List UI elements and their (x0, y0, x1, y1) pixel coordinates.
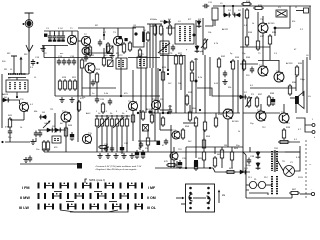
switch contact c13r2 (135, 204, 137, 210)
switch contact c13r1 (135, 193, 137, 199)
node n117 (116, 115, 118, 117)
trimmer arrow P1 (201, 39, 208, 48)
contact L4 (189, 202, 192, 205)
wire y120 left (10, 119, 24, 121)
node N13 (1, 141, 3, 143)
switch contact c2r1 (52, 193, 54, 199)
switch contact c1r1 (44, 193, 46, 199)
svg-text:33k: 33k (228, 87, 232, 89)
connector J1 (304, 8, 309, 13)
wire swlink 3-0 (62, 185, 68, 187)
switch contact c4r0 (67, 183, 69, 189)
svg-text:R16: R16 (248, 32, 253, 34)
tap 11-1 (123, 193, 125, 195)
switch contact c12r1 (127, 193, 129, 199)
wire x284 t13 (283, 104, 285, 113)
wire x196 vert (195, 20, 197, 45)
svg-text:• Regolare il filtro 455 kHz p: • Regolare il filtro 455 kHz per il max … (95, 168, 137, 171)
diode bridge X1 (276, 10, 287, 17)
resistor R24 (95, 72, 98, 84)
wire y113 rail (150, 112, 240, 114)
wire swlink 8-1 (99, 195, 105, 197)
wire y164 seg (20, 163, 80, 165)
resistor R49 (110, 117, 113, 128)
wire x246 ps2 (245, 190, 247, 198)
wire x133 mid (132, 111, 134, 141)
trimmer box L5 (212, 8, 218, 20)
wire x296 low (295, 104, 297, 113)
switch contact c14r1 (141, 193, 143, 199)
wire x55 vert (54, 57, 56, 96)
svg-text:W1: W1 (4, 69, 8, 71)
capacitor C2 plate (48, 40, 52, 42)
wire x232 low2 (231, 160, 233, 168)
IF can IFT0 (133, 27, 145, 47)
node n97 (96, 115, 98, 117)
wire T2 base rail (78, 40, 81, 42)
capacitor C36 electrolytic (194, 160, 198, 167)
svg-text:• Tensione 4.5V (7.5V) totale: • Tensione 4.5V (7.5V) totale oscillator… (95, 165, 142, 168)
svg-text:R33: R33 (235, 57, 240, 59)
resistor R72 (141, 110, 144, 121)
svg-text:IFT3: IFT3 (139, 54, 144, 56)
wire ladder x127 (126, 128, 128, 152)
wire x44 low (43, 148, 45, 152)
ground G4 (69, 97, 74, 102)
wire x310 vert (309, 6, 311, 60)
svg-text:L1: L1 (34, 77, 37, 79)
resistor R31 (185, 94, 188, 106)
wire y130 mid (160, 129, 172, 131)
wire ps loop (246, 155, 249, 190)
wire y152 right (240, 151, 268, 153)
svg-text:J1: J1 (295, 7, 298, 9)
switch contact c0r2 (38, 204, 40, 210)
svg-text:BC148: BC148 (232, 121, 239, 123)
trimmer arrow P2 (158, 43, 170, 53)
svg-text:D1: D1 (168, 19, 172, 21)
resistor R62 (220, 148, 223, 160)
svg-text:D7: D7 (244, 92, 248, 94)
wire sw2 left lead (181, 203, 186, 205)
switch contact c14r0 (141, 183, 143, 189)
resistor R76 (102, 56, 105, 67)
wire x171 seg (170, 125, 172, 150)
ground g100 (97, 153, 102, 158)
node D2 (232, 5, 234, 7)
antenna A3 stub (11, 56, 17, 67)
node n107 (106, 115, 108, 117)
transistor T17 (172, 131, 180, 139)
wire x243 vert (242, 8, 244, 50)
node n112 (111, 115, 113, 117)
svg-text:TR1: TR1 (274, 148, 279, 150)
wire plug lead (300, 193, 311, 195)
potentiometer P3 body (247, 96, 250, 108)
wire x203 vert (202, 18, 204, 55)
wire x243 low (242, 108, 244, 172)
svg-text:47: 47 (162, 145, 165, 147)
resistor R51 (120, 117, 123, 128)
wire swlink 7-2 (92, 206, 98, 208)
capacitor C27 (38, 131, 42, 138)
capacitor C26 (34, 131, 38, 138)
wire spk leads (290, 97, 295, 99)
wire x2 up (1, 74, 3, 100)
switch contact c0r1 (38, 193, 40, 199)
resistor R41 (8, 117, 11, 129)
tap 8-1 (101, 193, 103, 195)
node N15 (185, 167, 187, 169)
svg-text:k: k (314, 137, 316, 139)
capacitor C17 (72, 59, 76, 66)
capacitor C25 (8, 129, 12, 136)
capacitor C19 (91, 80, 95, 87)
wire x205 mid (204, 55, 206, 113)
svg-text:R37: R37 (258, 94, 263, 96)
svg-text:7.5: 7.5 (5, 125, 9, 129)
antenna A1 (25, 13, 34, 50)
wire y147 seg (186, 146, 243, 148)
svg-text:22k: 22k (160, 99, 164, 101)
switch contact c4r1 (67, 193, 69, 199)
wire x205 t (204, 113, 206, 122)
diode D9 (46, 128, 54, 133)
wire x228 t16 (227, 119, 229, 147)
switch arc left (189, 194, 192, 201)
svg-text:455kHz: 455kHz (150, 19, 157, 21)
wire x190 t (189, 105, 191, 112)
IF transformer IFT3 (137, 57, 147, 68)
arrow N4 (20, 57, 23, 69)
wire x258 drop (257, 12, 259, 39)
wire x290 link (289, 20, 291, 28)
svg-text:D2: D2 (238, 10, 242, 12)
capacitor C5 plate (61, 40, 65, 42)
resistor R48 (105, 117, 108, 128)
wire x263 drop (262, 33, 264, 66)
wire swlink 9-0 (107, 185, 113, 187)
oscillator coil L4 (160, 41, 169, 54)
node N7 (120, 95, 122, 97)
resistor R61 (213, 156, 216, 168)
node N5 (36, 62, 38, 64)
wire y142 seg (278, 141, 300, 143)
wire y53 seg (86, 52, 112, 54)
svg-text:C13: C13 (35, 57, 40, 59)
capacitor C43 body (125, 38, 128, 41)
svg-text:R56: R56 (218, 114, 223, 116)
capacitor C29 (28, 156, 32, 163)
wire swlink 1-0 (46, 185, 52, 187)
wire x155 mid (154, 110, 156, 141)
wire x174 t18 (173, 147, 175, 152)
svg-text:~: ~ (309, 162, 312, 167)
wire box down (16, 92, 18, 97)
capacitor C12 (171, 45, 175, 52)
svg-text:C20: C20 (100, 99, 105, 101)
resistor R53 (98, 145, 109, 148)
svg-text:W2: W2 (7, 53, 11, 55)
svg-text:R38: R38 (270, 93, 275, 95)
svg-text:LS: LS (306, 55, 309, 57)
ground g108 (105, 153, 110, 158)
svg-text:1:9: 1:9 (274, 53, 278, 55)
wire x90 drop (89, 73, 91, 96)
svg-text:300: 300 (2, 61, 6, 63)
resistor R4 (106, 42, 109, 54)
svg-text:5.6k: 5.6k (104, 93, 109, 95)
wire cap row bottom (42, 45, 68, 47)
wire N1 drop (103, 28, 105, 40)
node ant tap (23, 23, 25, 25)
resistor R55 (194, 116, 197, 128)
svg-text:L4: L4 (178, 21, 181, 23)
svg-text:4.7: 4.7 (103, 32, 107, 34)
node N10 (167, 73, 169, 75)
wire lamp mid (257, 184, 259, 186)
svg-text:T1: T1 (70, 28, 73, 30)
node N6 (16, 96, 18, 98)
wire y60 right (258, 60, 279, 62)
resistor R71 (131, 113, 134, 124)
svg-text:8.2k: 8.2k (198, 77, 203, 79)
svg-text:AC128: AC128 (286, 62, 293, 65)
svg-text:II MW: II MW (20, 196, 30, 200)
switch contact c3r2 (60, 204, 62, 210)
svg-text:L3: L3 (54, 132, 57, 134)
svg-text:100µ: 100µ (300, 79, 305, 81)
capacitor C3 plate (53, 40, 57, 42)
diode D10 (54, 128, 62, 133)
svg-text:T11: T11 (50, 109, 54, 111)
capacitor c141 (139, 142, 143, 148)
svg-text:D11: D11 (244, 168, 249, 170)
node n127 (126, 115, 128, 117)
wire x176 d (175, 66, 177, 113)
transistor T15 (82, 134, 91, 143)
svg-text:AF117: AF117 (146, 108, 153, 111)
svg-text:0.05: 0.05 (214, 83, 219, 85)
transistor T14 (61, 112, 71, 122)
wire vert x163 (162, 68, 164, 113)
wire x10 low (9, 135, 11, 142)
switch contact c7r1 (90, 193, 92, 199)
svg-text:R32: R32 (221, 56, 226, 58)
switch contact c13r0 (135, 183, 137, 189)
wire L1 core (8, 77, 26, 79)
tap 13-2 (138, 204, 140, 206)
wire swlink 4-2 (69, 206, 75, 208)
wire ladder x97 (96, 128, 98, 152)
tap 6-0 (86, 183, 88, 185)
svg-text:R67: R67 (292, 189, 297, 191)
tap 2-1 (56, 193, 58, 195)
resistor R19 (58, 79, 61, 91)
resistor R54 (188, 110, 191, 122)
wire x307 vert (306, 57, 308, 113)
svg-text:1k: 1k (98, 113, 101, 115)
ground g116 (113, 153, 118, 158)
svg-text:478: 478 (164, 161, 168, 163)
resistor R70 (146, 136, 149, 147)
wire y74 left (8, 73, 29, 75)
capacitor C4 plate (57, 40, 61, 42)
wire sw row link4 (109, 201, 117, 203)
svg-text:100µ: 100µ (246, 165, 251, 167)
capacitor C13 (31, 59, 35, 66)
svg-text:1k: 1k (252, 23, 255, 25)
resistor R5 (122, 42, 125, 54)
switch contact c1r2 (44, 204, 46, 210)
wire x82 seg (81, 70, 83, 96)
node D1 (223, 5, 225, 7)
contact L2 (189, 192, 192, 195)
ground G2 (109, 53, 114, 58)
resistor R11 (203, 38, 206, 50)
jack J3 (312, 131, 315, 134)
wire swlink 2-1 (54, 195, 60, 197)
capacitor C40 body (157, 141, 161, 145)
resistor R16 (245, 35, 248, 47)
switch contact c6r2 (82, 204, 84, 210)
tap 1-0 (48, 183, 50, 185)
svg-text:J: J (312, 119, 313, 121)
ground G5 (222, 79, 227, 84)
resistor R57 (203, 120, 206, 132)
wire y113 right (243, 112, 280, 114)
svg-text:10n: 10n (36, 149, 40, 151)
capacitor C33 electrolytic (135, 150, 139, 159)
capacitor C5 (61, 33, 65, 41)
wire top rail mid (78, 27, 136, 29)
svg-text:R66: R66 (229, 168, 234, 170)
svg-text:T12: T12 (262, 127, 266, 129)
resistor R13 (159, 24, 162, 36)
svg-text:P3: P3 (251, 94, 254, 96)
wire ps bottom long (246, 197, 292, 199)
wire x296 vert (295, 76, 297, 91)
resistor R64 (166, 163, 177, 166)
resistor R22 (73, 79, 76, 91)
wire y55 seg (160, 55, 185, 57)
wire x238 mid (237, 60, 239, 113)
wire y88 left (82, 87, 116, 89)
svg-text:OA85: OA85 (44, 122, 50, 125)
contact R5 (207, 207, 210, 210)
wire x204 low2 (203, 160, 205, 168)
wire y100 left (2, 99, 4, 101)
switch contact c12r0 (127, 183, 129, 189)
ground G6 (30, 139, 35, 144)
switch contact c14r2 (141, 204, 143, 210)
svg-text:5k: 5k (110, 113, 113, 115)
capacitor C14 (57, 59, 61, 66)
capacitor C38 (247, 158, 251, 165)
svg-text:2a: 2a (222, 193, 225, 197)
wire y123 seg (183, 122, 196, 124)
svg-text:68k: 68k (34, 111, 38, 113)
svg-text:D3: D3 (198, 19, 202, 21)
wire ps bottom (249, 193, 268, 195)
wire x29 drop (28, 60, 30, 74)
wire x181 d (180, 66, 182, 90)
wire x12 drop (13, 67, 15, 74)
svg-text:R27: R27 (178, 53, 183, 55)
wire x247 drop (246, 20, 248, 35)
switch contact c1r0 (44, 183, 46, 189)
wire sw2 link (193, 197, 206, 199)
svg-text:L1: L1 (10, 69, 13, 71)
tap 10-2 (116, 204, 118, 206)
node N1 (103, 34, 105, 36)
svg-text:R61: R61 (217, 154, 222, 156)
switch contact c7r2 (90, 204, 92, 210)
ground G3 (59, 97, 64, 102)
wire x196 c (195, 90, 197, 113)
svg-text:3 C4: 3 C4 (58, 28, 63, 30)
transformer TR2 prim (271, 176, 273, 195)
svg-text:IFT: IFT (188, 19, 192, 21)
wire x177 low (176, 161, 178, 168)
resistor R56 (214, 116, 217, 128)
wire x163 drop (162, 28, 164, 68)
capacitor C1 body (44, 34, 47, 37)
svg-text:C1: C1 (46, 28, 50, 30)
contact L1 (189, 187, 192, 190)
capacitor C42 body (119, 36, 122, 39)
svg-text:I MF: I MF (148, 186, 156, 190)
svg-text:V1: V1 (290, 162, 293, 164)
resistor R52 (125, 117, 128, 128)
resistor R32 (217, 57, 220, 69)
svg-text:AF121: AF121 (222, 28, 229, 31)
wire j1 lead (296, 10, 304, 12)
resistor R38 (267, 95, 270, 107)
wire y152 left (44, 151, 82, 153)
diode D11 (239, 170, 247, 175)
wire x121 b (120, 58, 122, 69)
wire x156 col (155, 68, 157, 100)
svg-text:5p: 5p (230, 53, 233, 55)
resistor R43 (64, 126, 67, 138)
wire y142 left (5, 141, 30, 143)
svg-text:PL: PL (254, 179, 257, 181)
wire y130 seg (38, 129, 66, 131)
switch contact c10r1 (112, 193, 114, 199)
svg-text:0.5: 0.5 (250, 85, 254, 87)
wire ps top (285, 146, 300, 152)
wire rect out (295, 152, 301, 171)
svg-text:T2: T2 (84, 34, 87, 36)
svg-text:2.2: 2.2 (300, 29, 304, 31)
transistor T3 (113, 36, 122, 45)
svg-text:R17: R17 (260, 36, 265, 38)
svg-text:R58: R58 (185, 126, 190, 128)
wire lamp right (266, 184, 272, 186)
diode D3 (197, 20, 202, 28)
diode D2 varicap (233, 13, 241, 18)
wire D1 drop (223, 6, 225, 15)
transformer TR2 sec (276, 176, 278, 195)
wire step down (213, 168, 250, 172)
wire x219 d (218, 69, 220, 113)
svg-text:1k: 1k (238, 131, 241, 133)
svg-text:2k2: 2k2 (188, 141, 192, 143)
contact R1 (207, 187, 210, 190)
svg-text:10k: 10k (208, 32, 212, 34)
svg-text:R21: R21 (72, 77, 77, 79)
